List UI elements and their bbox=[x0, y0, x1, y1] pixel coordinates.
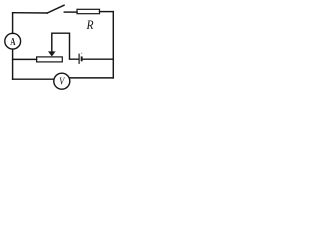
rheostat wiper link wire (up, over, down to battery wire) bbox=[52, 33, 79, 59]
voltmeter V circle bbox=[54, 73, 70, 89]
wire left rail upper (ammeter to top corner) bbox=[12, 13, 14, 34]
wire top-left corner to switch pivot bbox=[13, 12, 48, 14]
switch S (open blade) bbox=[47, 5, 64, 13]
resistor R box bbox=[77, 9, 100, 13]
rheostat box bbox=[37, 57, 63, 62]
battery long plate (+) bbox=[78, 54, 80, 63]
wire bottom left from voltmeter to corner bbox=[13, 78, 54, 80]
wire right rail bbox=[112, 12, 114, 78]
wire middle branch: rail to rheostat bbox=[13, 58, 37, 60]
wire switch fixed contact to resistor bbox=[64, 11, 77, 13]
wire left rail lower (corner up to ammeter) bbox=[12, 49, 14, 79]
svg-text:R: R bbox=[86, 18, 95, 33]
wire bottom right to voltmeter bbox=[70, 77, 113, 79]
battery short thick plate (-) bbox=[81, 56, 83, 61]
battery small mark above plate bbox=[81, 53, 82, 54]
ammeter A circle bbox=[5, 33, 21, 49]
rheostat wiper arrowhead bbox=[48, 51, 56, 56]
svg-text:A: A bbox=[10, 37, 15, 49]
wire battery to right rail bbox=[83, 58, 114, 60]
wire resistor to top-right corner bbox=[100, 11, 114, 13]
